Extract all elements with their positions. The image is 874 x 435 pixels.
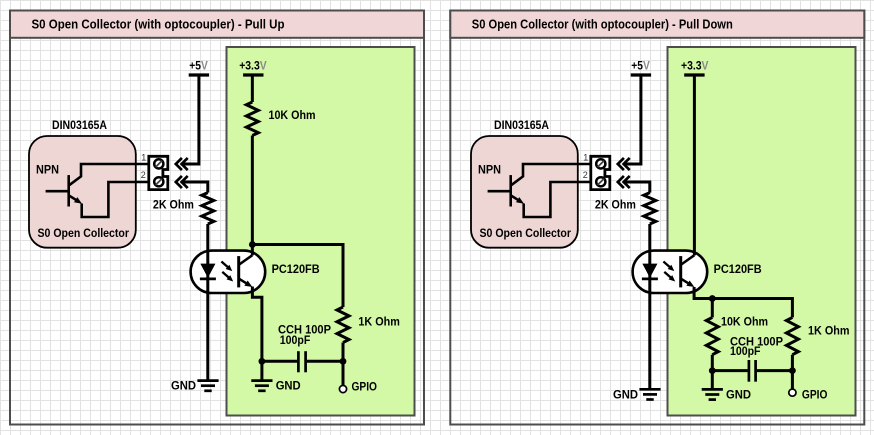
svg-text:S0 Open Collector (with optoco: S0 Open Collector (with optocoupler) - P…: [472, 17, 733, 32]
module box DIN03165A: [471, 136, 578, 248]
junction divider top node: [709, 295, 716, 302]
wire LED cathode to ground: [206, 224, 209, 381]
svg-text:GND: GND: [726, 387, 751, 401]
net arrow pin 1: [176, 158, 188, 170]
svg-text:+3.3V: +3.3V: [239, 59, 266, 73]
svg-text:10K Ohm: 10K Ohm: [269, 108, 316, 122]
capacitor C1 100pF: [297, 351, 300, 372]
svg-text:2: 2: [141, 170, 146, 180]
resistor R3 1K: [337, 307, 349, 343]
wire Q1 collector to connector pin 1: [69, 164, 149, 186]
wire node to capacitor: [712, 369, 747, 372]
panel frame (right): [450, 11, 864, 425]
svg-text:100pF: 100pF: [280, 333, 311, 347]
junction GPIO node: [340, 358, 347, 365]
port GPIO: [791, 371, 794, 389]
svg-text:S0 Open Collector: S0 Open Collector: [38, 226, 130, 240]
svg-text:1: 1: [141, 153, 146, 163]
svg-text:GND: GND: [276, 379, 301, 393]
power +5V: [189, 73, 209, 76]
junction GPIO node: [789, 367, 796, 374]
svg-text:+5V: +5V: [631, 59, 650, 73]
transistor Q1 NPN: [67, 175, 70, 206]
wire capacitor to GPIO node: [757, 369, 793, 372]
svg-text:DIN03165A: DIN03165A: [52, 118, 107, 132]
wire Q1 emitter to connector pin 2: [524, 182, 591, 217]
resistor R3 1K: [786, 317, 798, 354]
wire Q1 emitter to connector pin 2: [82, 182, 149, 217]
wire opto emitter to divider: [694, 287, 792, 317]
LED triangle overdraw: [643, 264, 658, 278]
GPIO side green region: [668, 47, 856, 416]
net arrow pin 2: [618, 176, 630, 188]
svg-text:PC120FB: PC120FB: [714, 262, 762, 276]
connector J1 screw terminal: [149, 156, 168, 189]
svg-text:GPIO: GPIO: [352, 379, 378, 393]
svg-text:S0 Open Collector: S0 Open Collector: [480, 226, 572, 240]
svg-text:2: 2: [583, 170, 588, 180]
wire 10K to opto collector: [251, 136, 254, 256]
port GPIO: [342, 361, 345, 385]
svg-text:10K Ohm: 10K Ohm: [721, 315, 768, 329]
svg-text:1K Ohm: 1K Ohm: [358, 315, 400, 329]
wire collector node to 1K: [252, 245, 343, 308]
svg-text:1: 1: [583, 153, 588, 163]
resistor R2 2K: [182, 182, 208, 193]
power +3.3V: [243, 73, 263, 76]
wire +3.3V to opto collector: [693, 75, 696, 255]
power +3.3V: [684, 73, 704, 76]
optocoupler U1 PC120FB: [191, 251, 266, 293]
wire capacitor to GPIO node: [307, 360, 343, 363]
title bar: [450, 11, 864, 38]
net arrow pin 2: [176, 176, 188, 188]
panel frame (left): [10, 11, 424, 425]
ground (logic side): [260, 361, 263, 380]
svg-text:2K Ohm: 2K Ohm: [153, 198, 194, 212]
wire Q1 collector to connector pin 1: [511, 164, 591, 186]
svg-text:GPIO: GPIO: [802, 388, 828, 402]
ground (LED side): [197, 379, 218, 382]
wire opto emitter down: [252, 287, 262, 362]
connector J1 screw terminal: [591, 156, 610, 189]
resistor R1 10K (pull-down): [711, 299, 714, 318]
svg-text:NPN: NPN: [478, 162, 501, 176]
resistor R2 2K: [624, 182, 650, 193]
LED triangle overdraw: [201, 264, 216, 278]
Q1 emitter arrow: [511, 195, 521, 201]
svg-text:DIN03165A: DIN03165A: [494, 118, 549, 132]
power +5V: [631, 73, 651, 76]
ground (logic side): [711, 371, 714, 390]
svg-text:PC120FB: PC120FB: [272, 262, 320, 276]
wire +5V to pin 1: [624, 75, 641, 164]
junction ground node: [709, 367, 716, 374]
ground (LED side): [639, 388, 660, 391]
svg-text:100pF: 100pF: [730, 344, 761, 358]
svg-text:+3.3V: +3.3V: [681, 59, 709, 73]
transistor Q1 NPN: [509, 175, 512, 206]
GPIO side green region: [227, 47, 415, 416]
optocoupler U1 PC120FB: [633, 251, 708, 293]
svg-text:GND: GND: [613, 387, 638, 401]
svg-text:1K Ohm: 1K Ohm: [808, 324, 850, 338]
wire node to capacitor: [262, 360, 297, 363]
wire LED cathode to ground: [648, 224, 651, 389]
svg-text:NPN: NPN: [36, 162, 59, 176]
capacitor C1 100pF: [748, 360, 751, 382]
resistor R1 10K (pull-up): [251, 75, 254, 102]
junction emitter/cap node: [259, 358, 266, 365]
junction collector node: [249, 241, 256, 248]
svg-text:S0 Open Collector (with optoco: S0 Open Collector (with optocoupler) - P…: [32, 17, 285, 32]
module box DIN03165A: [29, 136, 136, 248]
svg-text:GND: GND: [171, 379, 196, 393]
Q1 emitter arrow: [69, 195, 79, 201]
wire +5V to pin 1: [182, 75, 199, 164]
net arrow pin 1: [618, 158, 630, 170]
svg-text:+5V: +5V: [189, 59, 208, 73]
svg-text:2K Ohm: 2K Ohm: [595, 198, 636, 212]
title bar: [10, 11, 424, 38]
